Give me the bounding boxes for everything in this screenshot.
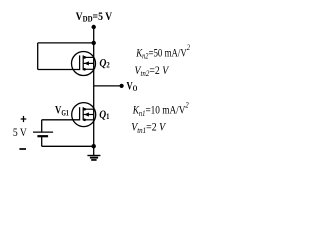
svg-text:Vtn1=2 V: Vtn1=2 V xyxy=(131,120,166,135)
wire battery negative to ground junction xyxy=(42,145,94,147)
transistor Q1 xyxy=(72,103,96,127)
ground xyxy=(87,155,100,161)
wire VDD terminal to gate-loop junction xyxy=(93,27,95,43)
label battery plus xyxy=(21,116,27,122)
wire rail from output node through Q1 to ground junction xyxy=(93,86,95,146)
transistor Q2 xyxy=(72,52,96,76)
svg-text:Vtn2=2 V: Vtn2=2 V xyxy=(135,63,170,78)
label battery minus xyxy=(19,148,26,150)
node source-ground junction xyxy=(92,144,96,148)
wire battery positive lead xyxy=(41,120,43,132)
node gate-drain junction of Q2 xyxy=(92,41,96,45)
wire battery negative lead xyxy=(41,136,43,146)
svg-text:5 V: 5 V xyxy=(13,127,28,139)
battery V_G1 5V negative plate xyxy=(37,135,48,137)
wire gate lead of Q1 from battery xyxy=(42,119,80,121)
svg-text:VDD=5 V: VDD=5 V xyxy=(76,9,113,24)
node VDD terminal xyxy=(92,25,96,29)
battery V_G1 5V positive plate xyxy=(33,131,53,133)
wire drain rail through Q2 to output node xyxy=(93,43,95,86)
wire gate loop left segment xyxy=(37,43,39,70)
wire output tap to Vo xyxy=(94,85,122,87)
wire to ground xyxy=(93,146,95,155)
node Vo terminal xyxy=(120,84,124,88)
wire gate loop top segment xyxy=(38,42,94,44)
wire gate lead of Q2 xyxy=(38,69,80,71)
